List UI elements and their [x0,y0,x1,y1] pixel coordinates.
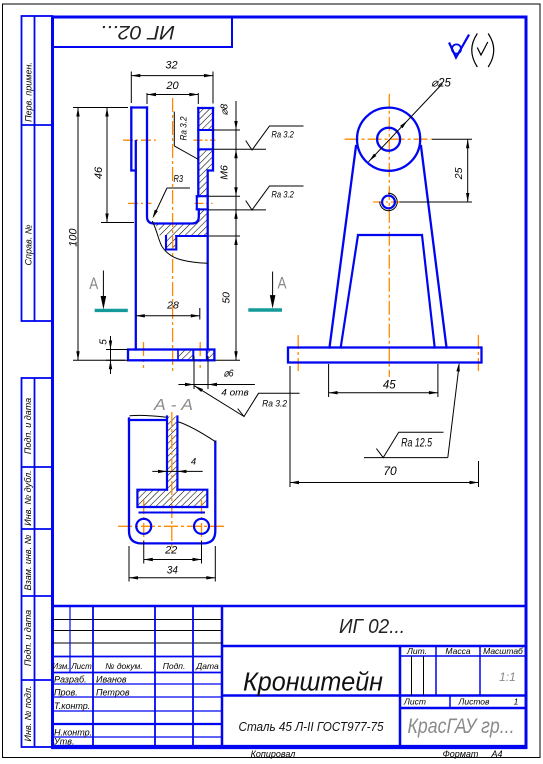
svg-text:⌀25: ⌀25 [431,78,451,90]
section A-A hole axis left [143,500,145,541]
section A-A hole left [136,519,151,534]
front view hatch - upper right wall block (d8 zone) [198,108,213,130]
front view vertical axis centerline [172,98,174,372]
side view boss circle d25 [357,108,420,171]
right dimension extension lines [213,129,240,131]
side view channel mouth opening [341,235,435,348]
front view M6 hole bottom cap [196,196,198,209]
svg-text:А4: А4 [490,749,502,759]
section A-A hole axis right [201,500,203,541]
section A-A outline [129,419,215,544]
side view right outer edge [421,146,447,348]
front view d8 hole upper edge [198,129,213,131]
svg-text:Масса: Масса [445,646,470,656]
dimension 100 [73,107,128,109]
svg-text:Подп. и дата: Подп. и дата [23,398,33,454]
dimension d6 4 holes [193,356,195,389]
section A-A hatch rib stem [167,417,177,490]
svg-text:25: 25 [453,167,465,180]
svg-text:Пров.: Пров. [54,687,78,697]
left margin upper boxes [22,16,53,321]
dimension 20 [146,93,148,104]
side view plate hole centerline right [477,335,479,371]
svg-text:1: 1 [514,697,519,707]
front view base plate outline [128,350,214,361]
svg-text:Формат: Формат [443,749,479,759]
front view d8 hole lower edge [198,148,213,150]
section A-A break line top [130,415,167,417]
svg-text:Масштаб: Масштаб [483,646,524,656]
svg-text:№ докум.: № докум. [105,661,142,671]
side view small hole circle M6 [382,196,395,209]
svg-text:Разраб.: Разраб. [54,675,87,685]
svg-text:Ra 3.2: Ra 3.2 [271,190,294,200]
front view hatch - base plate right section [207,350,215,361]
roughness Ra 3.2 upper [246,126,303,150]
svg-text:⌀6: ⌀6 [224,368,234,380]
svg-text:32: 32 [165,60,177,72]
svg-text:20: 20 [165,80,179,92]
section A-A rib stem edges [167,417,177,490]
front view right wall outer edge upper [208,108,213,171]
roughness Ra 12.5 plate [448,365,459,458]
svg-text:ИГ 02...: ИГ 02... [100,21,175,42]
front view rib bottom edge [176,235,207,237]
front view rib tongue edges [166,236,176,250]
front view hatch - base plate left section [178,350,193,361]
side view vertical axis centerline [388,94,390,377]
front view channel bottom edge [154,209,199,223]
left margin lower boxes [22,378,53,747]
front view base plate section break line [177,350,179,361]
front view left wall top edge [131,106,147,108]
svg-text:Лит.: Лит. [406,646,427,656]
dimension d8 [234,121,237,130]
svg-text:Подп.: Подп. [163,661,186,671]
svg-text:Ra 3.2: Ra 3.2 [262,399,288,409]
svg-text:Ra 3.2: Ra 3.2 [271,130,294,140]
svg-text:50: 50 [220,292,232,304]
svg-text:34: 34 [167,564,178,576]
front view hatch - rib tongue strip [166,236,176,250]
svg-text:22: 22 [164,545,177,557]
svg-text:Сталь 45 Л-II ГОСТ977-75: Сталь 45 Л-II ГОСТ977-75 [239,720,384,734]
dimension 32 [130,72,132,104]
side view M6 thread arc [380,193,397,210]
front view plate hole left edge [192,350,194,361]
dimension M6 [234,187,237,196]
section A-A break line upper right [177,422,215,442]
svg-text:R3: R3 [174,174,184,185]
svg-text:Справ. №: Справ. № [24,224,34,265]
dimension 46 [101,222,134,224]
section A-A hole right [194,519,209,534]
front view upper hole axis centerline left [123,139,158,141]
svg-text:М6: М6 [218,165,230,180]
front view plate hole centerline left [143,342,145,368]
radius R3 leader [167,187,190,189]
general roughness check symbol (blue) [452,44,461,53]
section A-A top edge [129,419,166,421]
svg-text:Инв. № дубл.: Инв. № дубл. [23,470,33,525]
svg-text:ИГ 02...: ИГ 02... [339,616,405,638]
svg-text:100: 100 [67,228,79,247]
svg-text:А: А [89,275,98,293]
front view right wall inner edge [197,108,199,196]
dimension 34 [128,546,130,582]
side view plate hole centerline left [297,335,299,371]
svg-text:Взам. инв. №: Взам. инв. № [23,534,33,590]
section A-A holes horizontal centerline [118,525,224,527]
side view boss hole horizontal centerline [345,138,432,140]
front view upper hole axis centerline right [194,139,216,141]
svg-text:Петров: Петров [96,687,130,697]
svg-text:Дата: Дата [195,661,219,671]
dimension 4 [152,470,202,472]
front view plate hole centerline right [199,342,201,368]
dimension 5 [106,349,128,351]
svg-text:4 отв: 4 отв [221,388,249,399]
front view M6 hole axis centerline left [128,202,152,204]
svg-text:Изм.: Изм. [52,662,69,671]
front view M6 hole upper edge [197,195,208,197]
dimension 70 [289,366,291,487]
svg-text:А: А [278,275,287,293]
roughness Ra 3.2 inner wall [173,112,175,146]
section mark A right [248,308,282,311]
section A-A lower edge line [139,512,206,514]
svg-text:Кронштейн: Кронштейн [243,669,383,697]
dimension d25 [369,84,443,162]
title block main lines [53,605,527,608]
front view left wall inner edge with R3 fillet [147,108,154,224]
roughness Ra 3.2 lower [246,186,303,210]
front view right wall outer edge lower [207,171,209,350]
svg-text:А - А: А - А [153,397,193,414]
svg-text:4: 4 [191,456,196,467]
svg-text:КрасГАУ гр...: КрасГАУ гр... [408,715,515,738]
front view M6 hole axis centerline right [195,202,213,204]
side view left outer edge [330,146,357,348]
roughness Ra 3.2 holes [195,386,245,417]
front view right wall top edge [198,107,213,109]
front view hatch - lower right wall and rib band [154,209,208,236]
front view hatch - M6 zone block [198,149,213,196]
front view left wall outer edge [131,108,136,171]
side view boss inner hole circle [377,128,400,151]
svg-text:28: 28 [166,300,179,312]
svg-text:5: 5 [99,339,110,345]
dimension 50 [234,236,237,245]
svg-text:Перв. примен.: Перв. примен. [24,62,34,122]
svg-text:⌀8: ⌀8 [219,103,230,115]
svg-text:45: 45 [383,380,396,392]
svg-text:Иванов: Иванов [96,675,127,685]
section mark A left [95,309,128,312]
svg-text:46: 46 [93,166,105,179]
svg-text:Утв.: Утв. [53,737,74,747]
title block revision table lines [53,619,223,621]
front view break line curve [153,222,208,264]
front view left wall lower outer edge [135,141,137,350]
side view base plate [288,348,482,363]
front view M6 hole lower edge [197,208,208,210]
svg-text:Копировал: Копировал [251,749,296,759]
section A-A vertical axis centerline [171,412,173,552]
roughness (in brackets) symbol [472,34,477,67]
dimension 25 [432,138,472,140]
side view small hole horizontal centerline [373,201,400,203]
svg-text:Подп. и дата: Подп. и дата [23,610,33,666]
svg-text:Инв. № подл.: Инв. № подл. [23,686,33,742]
front view plate hole right edge [206,350,208,361]
svg-text:Лист: Лист [403,697,426,707]
dimension 45 [328,364,330,397]
svg-text:Листов: Листов [458,697,491,707]
svg-text:Ra 3.2: Ra 3.2 [178,117,188,141]
svg-text:Лист: Лист [70,662,92,671]
section A-A bottom bar outline [137,490,207,507]
svg-text:Ra 12.5: Ra 12.5 [401,438,432,450]
svg-text:70: 70 [383,464,397,478]
svg-text:1:1: 1:1 [499,670,516,684]
top document number box [53,17,233,47]
svg-text:Т.контр.: Т.контр. [54,701,90,711]
section A-A hatch bottom bar [137,490,207,507]
frame bottom edge thick [51,745,528,749]
dimension 28 [199,308,201,320]
dimension 22 [143,541,145,564]
